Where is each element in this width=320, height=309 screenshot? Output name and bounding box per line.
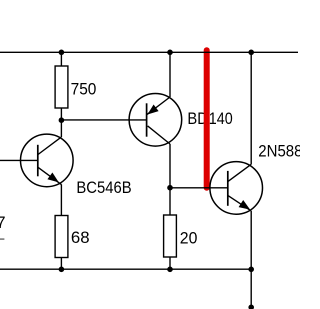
svg-text:20: 20 (180, 230, 198, 248)
wire bottom rail junction down to output node (250, 269, 252, 307)
node junction dot output bottom (248, 305, 254, 309)
svg-text:2N5886: 2N5886 (258, 142, 300, 160)
svg-text:140: 140 (209, 110, 233, 128)
transistor Q3 2N5886 (210, 142, 311, 214)
wire BC546B emitter to resistor 68 (60, 184, 62, 215)
wire resistor 20 to bottom rail (169, 257, 171, 269)
resistor 68 (55, 216, 90, 258)
wire top supply rail (0, 51, 298, 53)
node B junction dot (167, 185, 173, 191)
transistor Q1 BC546B (0, 134, 132, 197)
svg-text:BC546B: BC546B (76, 179, 131, 197)
node junction dot emitter/bottom rail (248, 267, 254, 273)
wire 2N5886 collector to top rail (250, 52, 252, 164)
resistor 20 (164, 215, 198, 257)
wire bottom rail (0, 268, 251, 270)
wire BD140 collector to node B (169, 144, 171, 188)
node A junction dot below 750 (59, 117, 65, 123)
wire top rail to BD140 emitter (169, 52, 171, 97)
svg-text:7: 7 (0, 214, 5, 232)
wire node A down to BC546B collector (60, 120, 62, 137)
node junction dot top rail / 750 (59, 50, 65, 56)
red annotation line (204, 50, 210, 188)
cut-off gray wire stub at left edge (0, 238, 4, 240)
wire node B to resistor 20 (169, 188, 171, 215)
node junction dot 20/bottom rail (167, 267, 173, 273)
transistor Q2 BD140 (PNP) (129, 94, 233, 147)
wire 2N5886 emitter down to bottom rail (250, 211, 252, 269)
resistor 750 (55, 66, 96, 108)
node junction dot top rail / BD140 emitter (167, 50, 173, 56)
node junction dot 68/bottom rail (59, 267, 65, 273)
wire node B to 2N5886 base (170, 187, 228, 189)
wire resistor 68 to bottom rail (60, 258, 62, 270)
wire node A to BD140 base (61, 119, 146, 121)
node junction dot top rail / 2N5886 collector (248, 50, 254, 56)
wire top rail to resistor 750 (60, 52, 62, 66)
svg-text:68: 68 (71, 229, 90, 247)
wire resistor 750 to node A (60, 108, 62, 120)
svg-text:750: 750 (71, 81, 97, 99)
